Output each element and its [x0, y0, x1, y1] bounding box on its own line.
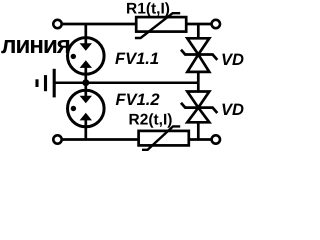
wire VD2 bottom lead: [197, 122, 200, 139]
VD2 lower diode triangle: [187, 108, 209, 123]
suppressor VD1: [181, 24, 217, 83]
wire FV1.2 bottom lead: [84, 120, 87, 140]
svg-text:VD: VD: [221, 101, 244, 119]
wire FV1.1 bottom lead: [84, 68, 87, 83]
FV1.1 circle: [68, 38, 105, 75]
wire top rail left segment: [62, 23, 137, 26]
VD2 upper diode triangle: [187, 92, 209, 108]
wire bottom rail right segment: [189, 138, 212, 141]
wire middle ground rail: [56, 81, 199, 84]
wire FV1.1 top lead: [84, 24, 87, 44]
svg-text:FV1.2: FV1.2: [116, 91, 160, 109]
R1 body: [136, 17, 186, 32]
resistor R1: [135, 13, 186, 38]
FV1.2 top arrowhead: [80, 96, 92, 104]
FV1.1 bottom arrowhead: [80, 60, 92, 68]
wire VD2 top lead: [197, 83, 200, 92]
svg-text:линия: линия: [1, 32, 70, 59]
R2 nonlinearity stroke: [142, 126, 180, 149]
terminal bottom-left: [53, 135, 61, 143]
wire bottom rail left segment: [62, 138, 140, 141]
FV1.2 circle: [68, 90, 105, 127]
terminal top-left: [53, 20, 61, 28]
R2 body: [139, 131, 189, 146]
svg-text:R2(t,I): R2(t,I): [129, 111, 173, 128]
VD1 upper diode triangle: [187, 38, 209, 54]
wire VD1 top lead: [197, 24, 200, 38]
svg-text:VD: VD: [221, 51, 244, 69]
FV1.1 top arrowhead: [80, 43, 92, 51]
FV1.2 bottom arrowhead: [80, 113, 92, 121]
terminal bottom-right: [212, 135, 220, 143]
wire FV1.2 top lead: [84, 83, 87, 97]
svg-text:R1(t,I): R1(t,I): [126, 1, 170, 18]
arrester FV1.2: [68, 83, 105, 140]
wire top rail right segment: [186, 23, 212, 26]
R1 nonlinearity stroke: [135, 13, 180, 38]
VD2 zener bar with hooks: [181, 103, 217, 113]
FV1.2 gas dot: [71, 106, 76, 111]
FV1.1 gas dot: [71, 54, 76, 59]
resistor R2: [139, 126, 189, 149]
svg-text:FV1.1: FV1.1: [115, 50, 159, 68]
wire VD1 bottom lead: [197, 72, 200, 83]
VD1 lower diode triangle: [187, 55, 209, 72]
suppressor VD2: [181, 83, 217, 140]
terminal top-right: [212, 20, 220, 28]
ground: [37, 69, 54, 98]
junction node middle: [82, 79, 89, 86]
VD1 zener bar with hooks: [181, 50, 217, 60]
arrester FV1.1: [68, 24, 105, 83]
